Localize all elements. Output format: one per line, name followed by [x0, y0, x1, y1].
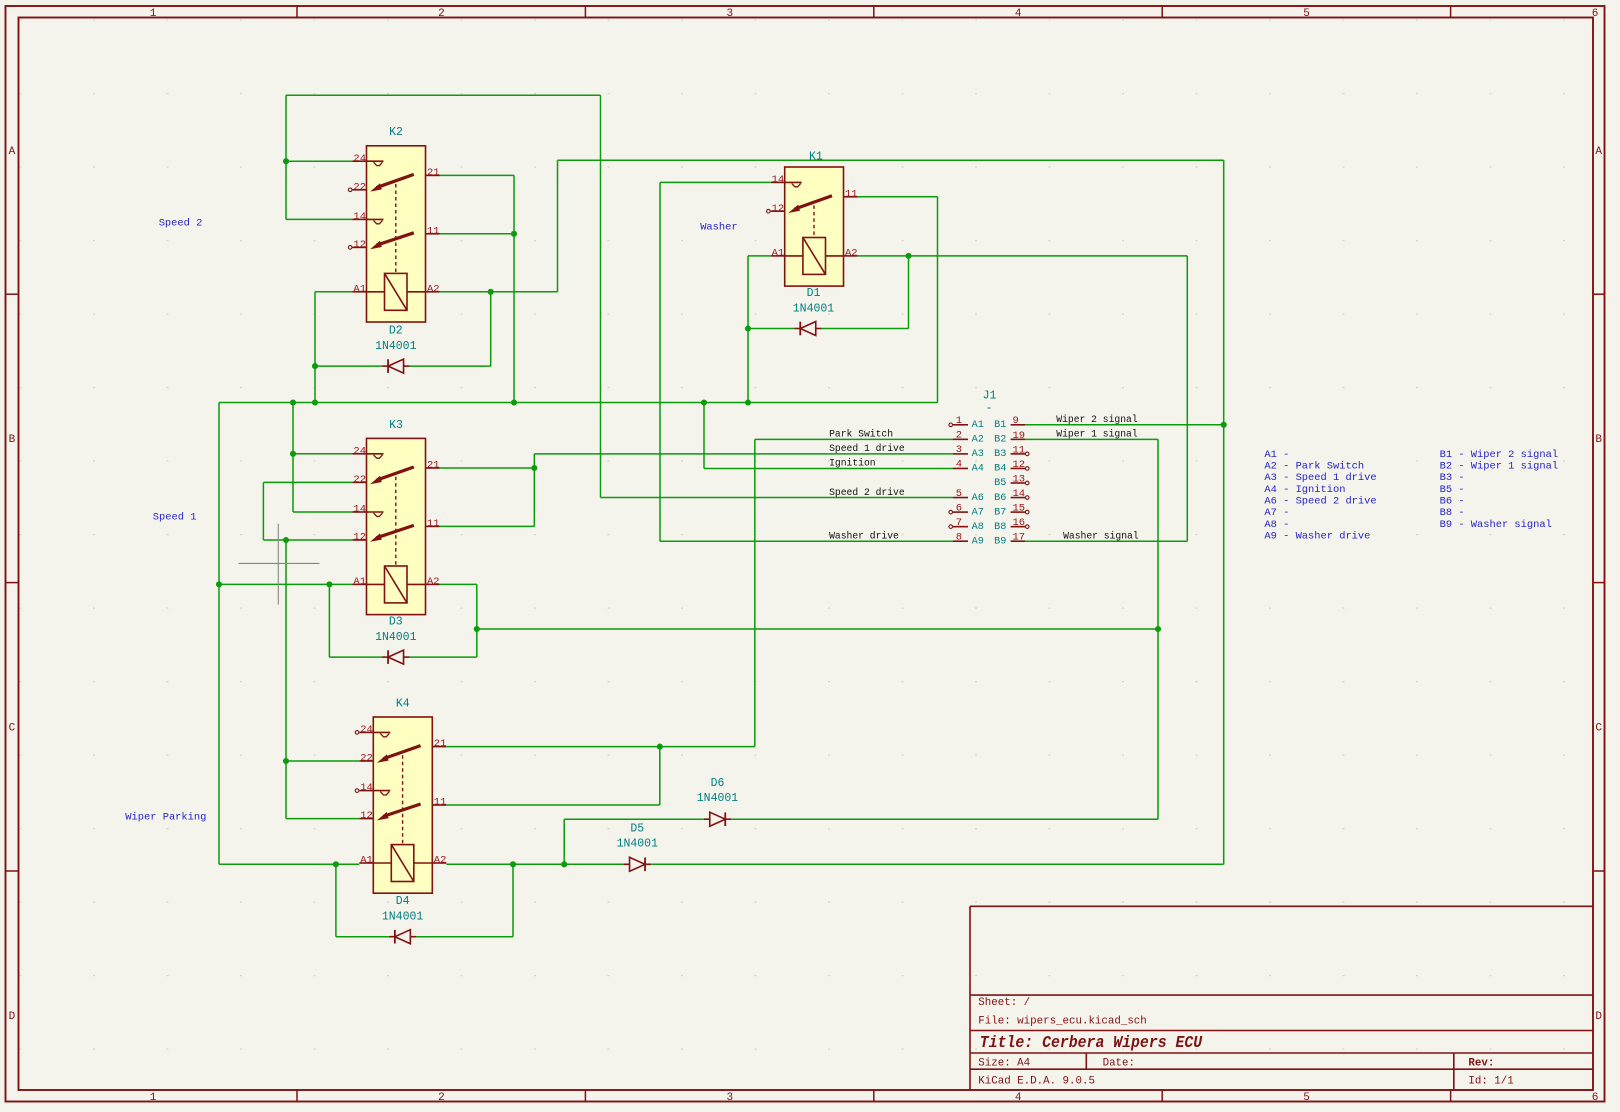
svg-text:5: 5 — [1303, 8, 1310, 20]
relay K3 coil A1-A2 — [353, 583, 367, 585]
junction Wiper 2 signal tee — [1221, 422, 1227, 428]
relay K2 unconnected pin 12 end — [348, 246, 352, 250]
svg-text:B: B — [9, 434, 16, 446]
svg-text:22: 22 — [360, 753, 373, 765]
connector J1 pin 5 (A6) — [953, 497, 968, 499]
svg-text:Size: A4: Size: A4 — [978, 1057, 1030, 1069]
wire bus y=629 to Wiper 1 signal riser — [477, 628, 1158, 630]
wire to K4 pin 22 — [286, 760, 359, 762]
wire K2 A2 to right — [440, 291, 558, 293]
svg-text:1N4001: 1N4001 — [375, 340, 417, 353]
svg-text:A2: A2 — [427, 576, 440, 588]
wire D3 loop left riser — [328, 584, 330, 657]
svg-text:D1: D1 — [807, 287, 821, 300]
junction D1 loop on riser — [745, 325, 751, 331]
svg-text:Id: 1/1: Id: 1/1 — [1468, 1076, 1513, 1088]
editor cursor crosshair — [239, 562, 320, 564]
wire vertical K3 pins 21/11 — [533, 454, 535, 527]
connector J1 unconnected pin 1 end — [949, 423, 953, 427]
junction A-bus x=293 — [290, 399, 296, 405]
wire K1 A1 stub wire — [748, 255, 771, 257]
svg-text:21: 21 — [427, 167, 440, 179]
svg-text:A2: A2 — [845, 248, 858, 260]
svg-text:Speed 1 drive: Speed 1 drive — [829, 443, 905, 454]
svg-text:Title: Cerbera Wipers ECU: Title: Cerbera Wipers ECU — [980, 1034, 1203, 1053]
junction D2 loop left / bus riser — [312, 363, 318, 369]
connector J1 unconnected pin 16 end — [1025, 525, 1029, 529]
wire A-bus left riser down to coil bus — [218, 403, 220, 865]
wire J1 pin 9 Wiper 2 signal — [1025, 424, 1224, 426]
relay K3 moving contact arm pin 12 / pin 11 — [353, 539, 367, 541]
relay K4 unconnected pin 14 end — [355, 789, 359, 793]
svg-text:4: 4 — [1015, 8, 1022, 20]
relay K4 moving contact arm pin 12 / pin 11 — [359, 818, 373, 820]
wire D4 loop right segment — [416, 936, 513, 938]
svg-text:A9 - Washer drive: A9 - Washer drive — [1264, 530, 1370, 542]
svg-text:B3: B3 — [994, 449, 1006, 460]
svg-text:B2: B2 — [994, 435, 1006, 446]
wire D2 loop to A-bus — [314, 366, 316, 402]
svg-text:K2: K2 — [389, 126, 403, 139]
wire D4 loop left segment — [336, 936, 389, 938]
svg-text:Washer signal: Washer signal — [1063, 530, 1139, 541]
wire coil bottom bus from K4 A2 to D5 — [446, 863, 623, 865]
connector J1 pin 11 (B3) — [1011, 453, 1025, 455]
wire J1 pin 19 Wiper 1 signal — [1025, 438, 1158, 440]
wire D4 loop left riser — [335, 864, 337, 936]
svg-text:A9: A9 — [972, 536, 984, 547]
wire Wiper 1 signal riser down to D6 — [1157, 439, 1159, 819]
svg-text:1: 1 — [150, 8, 157, 20]
wire D1 loop left segment — [748, 328, 794, 330]
junction K4 pin 22 tee — [283, 758, 289, 764]
svg-text:B1 - Wiper 2 signal: B1 - Wiper 2 signal — [1440, 449, 1558, 461]
relay K4 unconnected pin 24 end — [355, 731, 359, 735]
svg-text:11: 11 — [845, 188, 858, 200]
relay K1 body — [785, 167, 844, 286]
junction A-bus x=748 — [745, 399, 751, 405]
wire K2 A2 net across top to right side — [558, 159, 1224, 161]
wire K3 pin 11 to vertical — [440, 525, 535, 527]
wire K3 A2 right — [440, 583, 477, 585]
wire D6 input from coil bus branch — [564, 818, 704, 820]
wire right-side vertical x=1223.7 down to coil bus — [1223, 160, 1225, 864]
svg-text:B8: B8 — [994, 522, 1006, 533]
svg-text:6: 6 — [1592, 8, 1599, 20]
wire Park Switch vertical down to K4 pin 21 row — [754, 439, 756, 746]
svg-text:A4 - Ignition: A4 - Ignition — [1264, 484, 1345, 496]
svg-text:1: 1 — [956, 415, 962, 427]
relay K3 fixed contact pin 24 — [353, 453, 367, 455]
connector J1 pin 8 (A9) — [953, 540, 968, 542]
wire coil bottom bus right segment after D5 — [651, 863, 1224, 865]
svg-text:A6 - Speed 2 drive: A6 - Speed 2 drive — [1264, 495, 1376, 507]
wire D6 output to riser — [731, 818, 1158, 820]
diode D5 1N4001 (cathode right) — [624, 863, 630, 865]
svg-text:B1: B1 — [994, 420, 1006, 431]
svg-text:Speed 1: Speed 1 — [153, 512, 197, 524]
relay K4 fixed contact pin 14 — [359, 790, 373, 792]
connector J1 pin 7 (A8) — [953, 526, 968, 528]
svg-text:14: 14 — [353, 211, 366, 223]
wire K2 A1 left — [315, 291, 353, 293]
connector J1 pin 17 (B9) — [1011, 540, 1025, 542]
wire K2 A1 down to D2 loop — [314, 292, 316, 366]
svg-text:Wiper Parking: Wiper Parking — [125, 812, 206, 824]
relay K4 mechanical linkage (dashed) — [402, 755, 404, 844]
svg-text:D2: D2 — [389, 325, 403, 338]
svg-text:-: - — [986, 402, 993, 415]
wire vertical K2 pins 21/11 down to A-bus — [513, 175, 515, 402]
svg-text:2: 2 — [438, 1092, 445, 1104]
svg-text:Ignition: Ignition — [829, 458, 876, 469]
svg-text:Wiper 1 signal: Wiper 1 signal — [1056, 429, 1138, 440]
junction K3 A2 / D3 / bus y=629 — [474, 626, 480, 632]
wire D2 loop right riser — [490, 292, 492, 366]
svg-text:K4: K4 — [396, 697, 410, 710]
relay K2 mechanical linkage (dashed) — [395, 184, 397, 273]
svg-text:1N4001: 1N4001 — [793, 302, 835, 315]
diode D4 1N4001 (cathode left) — [389, 936, 395, 938]
wire D6 branch riser — [563, 819, 565, 864]
svg-text:B2 - Wiper 1 signal: B2 - Wiper 1 signal — [1440, 460, 1558, 472]
svg-text:A2: A2 — [427, 283, 440, 295]
connector J1 unconnected pin 7 end — [949, 525, 953, 529]
svg-text:24: 24 — [353, 445, 366, 457]
wire riser to K4 pin 11 — [659, 747, 661, 805]
svg-text:B5: B5 — [994, 478, 1006, 489]
junction D1 loop on K1 A2 wire — [905, 253, 911, 259]
svg-text:16: 16 — [1013, 517, 1026, 529]
svg-text:21: 21 — [427, 460, 440, 472]
junction D6 branch on coil bus — [561, 861, 567, 867]
junction D3 loop on K3 A1 wire — [326, 581, 332, 587]
relay K1 moving contact arm pin 12 / pin 11 — [771, 210, 785, 212]
svg-text:A3 - Speed 1 drive: A3 - Speed 1 drive — [1264, 472, 1376, 484]
relay K3 body — [367, 438, 426, 614]
wire K3 pin 21 to vertical — [440, 467, 535, 469]
svg-text:B9 - Washer signal: B9 - Washer signal — [1440, 519, 1552, 531]
wire to K3 pin 24 — [293, 453, 353, 455]
connector J1 pin 13 (B5) — [1011, 482, 1025, 484]
svg-text:A1: A1 — [772, 248, 785, 260]
svg-text:12: 12 — [353, 532, 366, 544]
relay K2 fixed contact pin 24 — [353, 160, 367, 162]
junction K3 pin 12 net to K4 — [283, 537, 289, 543]
svg-text:6: 6 — [956, 502, 962, 514]
svg-text:4: 4 — [1015, 1092, 1022, 1104]
svg-text:5: 5 — [1303, 1092, 1310, 1104]
wire vertical K2 A2 up — [557, 160, 559, 292]
wire K1 A2 down to Washer signal — [1186, 256, 1188, 541]
svg-text:1N4001: 1N4001 — [697, 792, 739, 805]
relay K3 moving contact arm pin 22 / pin 21 — [353, 481, 367, 483]
svg-text:A7 -: A7 - — [1264, 507, 1289, 519]
junction D4 loop right on coil bus — [510, 861, 516, 867]
junction bus y=629 right end — [1155, 626, 1161, 632]
svg-text:1N4001: 1N4001 — [375, 631, 417, 644]
wire coil bottom bus left segment to K4 A1 — [219, 863, 359, 865]
svg-text:12: 12 — [1013, 459, 1026, 471]
svg-text:6: 6 — [1592, 1092, 1599, 1104]
svg-text:A8: A8 — [972, 522, 984, 533]
svg-text:A: A — [9, 146, 16, 158]
diode D3 1N4001 (cathode left) — [382, 656, 388, 658]
svg-text:17: 17 — [1013, 532, 1026, 544]
svg-text:11: 11 — [1013, 444, 1026, 456]
wire D3 loop right riser — [476, 629, 478, 657]
svg-text:3: 3 — [726, 8, 733, 20]
svg-text:D5: D5 — [630, 822, 644, 835]
svg-text:3: 3 — [956, 444, 962, 456]
wire top bus K2 pins 24/14 to speed-2-drive vertical — [286, 94, 601, 96]
svg-text:3: 3 — [726, 1092, 733, 1104]
svg-text:B: B — [1595, 434, 1602, 446]
wire K3 pin 22 down to pin 12 row — [262, 482, 264, 540]
svg-text:1N4001: 1N4001 — [382, 911, 424, 924]
svg-text:J1: J1 — [983, 390, 997, 403]
junction K3 pin 24 tee — [290, 451, 296, 457]
wire K4 pin 11 row — [446, 804, 660, 806]
wire to K4 pin 12 — [286, 818, 359, 820]
svg-text:12: 12 — [360, 810, 373, 822]
connector J1 pin 14 (B6) — [1011, 497, 1025, 499]
junction K3 pin 21 tee — [531, 465, 537, 471]
svg-text:B6 -: B6 - — [1440, 495, 1465, 507]
wire K2 pin 11 to vertical — [440, 233, 515, 235]
wire into K2 pin 14 — [286, 218, 353, 220]
wire K4 pin 21 row — [446, 746, 755, 748]
wire horizontal A-bus y=402.5 — [219, 402, 938, 404]
connector J1 unconnected pin 12 end — [1025, 467, 1029, 471]
connector J1 pin 15 (B7) — [1011, 511, 1025, 513]
connector J1 unconnected pin 11 end — [1025, 452, 1029, 456]
junction K2 pin 11 tee — [511, 231, 517, 237]
svg-text:C: C — [1595, 723, 1602, 735]
relay K2 unconnected pin 22 end — [348, 188, 352, 192]
title block frame — [970, 905, 1593, 907]
svg-text:11: 11 — [427, 518, 440, 530]
wire D4 loop right riser — [512, 864, 514, 936]
wire K3 A2 down to park-return bus — [476, 584, 478, 629]
svg-text:Washer: Washer — [700, 221, 737, 233]
junction K3 A1 tee — [216, 581, 222, 587]
svg-text:1N4001: 1N4001 — [617, 837, 659, 850]
junction at K2 pin 24 branch — [283, 158, 289, 164]
svg-text:19: 19 — [1013, 430, 1026, 442]
svg-text:11: 11 — [427, 225, 440, 237]
wire K1 A1 riser from A-bus — [747, 256, 749, 403]
svg-text:B4: B4 — [994, 464, 1006, 475]
svg-text:8: 8 — [956, 531, 962, 543]
svg-text:24: 24 — [360, 724, 373, 736]
wire D1 loop right riser — [908, 256, 910, 329]
wire D2 loop left segment — [315, 365, 382, 367]
svg-text:4: 4 — [956, 459, 962, 471]
relay K4 body — [373, 717, 432, 893]
svg-text:B9: B9 — [994, 536, 1006, 547]
wire K2 pin 21 to vertical — [440, 174, 515, 176]
svg-text:12: 12 — [772, 203, 785, 215]
connector J1 pin 1 (A1) — [953, 424, 968, 426]
svg-text:Speed 2: Speed 2 — [159, 218, 203, 230]
connector J1 unconnected pin 13 end — [1025, 481, 1029, 485]
relay K2 body — [367, 146, 426, 322]
svg-text:A: A — [1595, 146, 1602, 158]
relay K3 mechanical linkage (dashed) — [395, 477, 397, 566]
svg-text:C: C — [9, 723, 16, 735]
connector J1 pin 16 (B8) — [1011, 526, 1025, 528]
wire D3 loop left segment — [329, 656, 382, 658]
relay K4 coil A1-A2 — [359, 862, 373, 864]
svg-text:Speed 2 drive: Speed 2 drive — [829, 487, 905, 498]
svg-text:A1 -: A1 - — [1264, 449, 1289, 461]
wire speed-2-drive vertical x=600.5 — [600, 95, 602, 497]
svg-text:A2 - Park Switch: A2 - Park Switch — [1264, 460, 1364, 472]
svg-text:9: 9 — [1013, 415, 1019, 427]
svg-text:Date:: Date: — [1103, 1057, 1135, 1069]
svg-text:D6: D6 — [711, 777, 725, 790]
svg-text:A1: A1 — [353, 283, 366, 295]
svg-text:A2: A2 — [434, 855, 447, 867]
connector J1 unconnected pin 15 end — [1025, 510, 1029, 514]
svg-text:Washer drive: Washer drive — [829, 530, 899, 541]
svg-text:A3: A3 — [972, 449, 984, 460]
svg-text:14: 14 — [1013, 488, 1026, 500]
wire J1 pin 2 Park Switch — [755, 438, 953, 440]
svg-text:7: 7 — [956, 517, 962, 529]
relay K2 coil A1-A2 — [353, 291, 367, 293]
svg-text:22: 22 — [353, 181, 366, 193]
svg-text:21: 21 — [434, 738, 447, 750]
wire to K3 pin 14 — [293, 511, 353, 513]
svg-text:B7: B7 — [994, 507, 1006, 518]
relay K2 moving contact arm pin 12 / pin 11 — [353, 246, 367, 248]
svg-text:11: 11 — [434, 797, 447, 809]
relay K3 fixed contact pin 14 — [353, 511, 367, 513]
svg-text:A1: A1 — [360, 855, 373, 867]
connector J1 pin 12 (B4) — [1011, 467, 1025, 469]
svg-text:A7: A7 — [972, 507, 984, 518]
wire Ignition to J1 pin 4 — [704, 467, 953, 469]
wire Speed 1 drive to J1 pin 3 — [534, 453, 953, 455]
wire K1 pin 11 right — [858, 196, 938, 198]
connector J1 pin 6 (A7) — [953, 511, 968, 513]
relay K2 moving contact arm pin 22 / pin 21 — [353, 189, 367, 191]
svg-text:15: 15 — [1013, 503, 1026, 515]
relay K2 fixed contact pin 14 — [353, 218, 367, 220]
svg-text:2: 2 — [438, 8, 445, 20]
wire K1 pin 11 down to A-bus — [937, 197, 939, 403]
connector J1 unconnected pin 6 end — [949, 510, 953, 514]
diode D6 1N4001 (cathode right) — [704, 818, 710, 820]
wire J1 pin 17 Washer signal — [1025, 540, 1187, 542]
connector J1 unconnected pin 14 end — [1025, 496, 1029, 500]
diode D1 1N4001 (cathode left) — [794, 328, 800, 330]
svg-text:B3 -: B3 - — [1440, 472, 1465, 484]
svg-text:A8 -: A8 - — [1264, 519, 1289, 531]
svg-text:K1: K1 — [809, 151, 823, 164]
svg-text:A6: A6 — [972, 493, 984, 504]
connector J1 pin 3 (A3) — [953, 453, 968, 455]
svg-text:K3: K3 — [389, 419, 403, 432]
wire Ignition riser from A-bus — [703, 403, 705, 469]
svg-text:22: 22 — [353, 474, 366, 486]
junction K4 pin 21 / pin 11 riser — [657, 744, 663, 750]
svg-text:Sheet: /: Sheet: / — [978, 997, 1030, 1009]
svg-text:D3: D3 — [389, 616, 403, 629]
relay K1 fixed contact pin 14 — [771, 181, 785, 183]
wire vertical at x=286 to K2 pin 14 — [285, 95, 287, 219]
junction A-bus x=704 — [701, 399, 707, 405]
junction D2 loop on K2 A2 wire — [488, 289, 494, 295]
relay K4 fixed contact pin 24 — [359, 731, 373, 733]
connector J1 pin 4 (A4) — [953, 467, 968, 469]
junction D4 loop left on coil bus — [333, 861, 339, 867]
svg-text:D4: D4 — [396, 895, 410, 908]
wire vertical x=293 to K3 pins 24/14 — [292, 403, 294, 513]
svg-text:14: 14 — [353, 504, 366, 516]
svg-text:2: 2 — [956, 430, 962, 442]
wire D1 loop right segment — [822, 328, 909, 330]
svg-text:14: 14 — [360, 782, 373, 794]
junction A-bus x=315 — [312, 399, 318, 405]
svg-text:B8 -: B8 - — [1440, 507, 1465, 519]
svg-text:13: 13 — [1013, 473, 1026, 485]
wire vertical x=286 down to K4 pin 12 — [285, 540, 287, 819]
connector J1 pin 19 (B2) — [1011, 438, 1025, 440]
svg-text:D: D — [9, 1011, 16, 1023]
svg-text:A1: A1 — [972, 420, 984, 431]
relay K4 moving contact arm pin 22 / pin 21 — [359, 760, 373, 762]
wire branch to K2 pin 24 — [286, 160, 353, 162]
svg-text:14: 14 — [772, 174, 785, 186]
svg-text:File: wipers_ecu.kicad_sch: File: wipers_ecu.kicad_sch — [978, 1016, 1146, 1028]
wire washer drive vertical x=660 — [659, 182, 661, 541]
relay K1 coil A1-A2 — [771, 255, 785, 257]
wire D2 loop right segment — [410, 365, 491, 367]
connector J1 pin 2 (A2) — [953, 438, 968, 440]
svg-text:12: 12 — [353, 239, 366, 251]
svg-text:1: 1 — [150, 1092, 157, 1104]
relay K1 unconnected pin 12 end — [767, 209, 771, 213]
wire K3 pin 12 row — [263, 539, 352, 541]
wire K3 pin 22 left — [263, 481, 352, 483]
relay K1 mechanical linkage (dashed) — [813, 205, 815, 237]
svg-text:A1: A1 — [353, 576, 366, 588]
svg-text:Park Switch: Park Switch — [829, 429, 893, 440]
wire K1 A2 right — [858, 255, 1188, 257]
svg-text:5: 5 — [956, 488, 962, 500]
svg-text:Wiper 2 signal: Wiper 2 signal — [1056, 414, 1138, 425]
svg-text:Rev:: Rev: — [1468, 1057, 1494, 1069]
svg-text:B6: B6 — [994, 493, 1006, 504]
wire Washer drive to J1 pin 8 — [660, 540, 953, 542]
wire K3 A1 left to riser — [219, 583, 353, 585]
connector J1 pin 9 (B1) — [1011, 424, 1025, 426]
svg-text:A2: A2 — [972, 435, 984, 446]
diode D2 1N4001 (cathode left) — [382, 365, 388, 367]
junction A-bus x=514 — [511, 399, 517, 405]
wire K1 pin 14 left — [660, 181, 771, 183]
svg-text:A4: A4 — [972, 464, 984, 475]
svg-text:KiCad E.D.A. 9.0.5: KiCad E.D.A. 9.0.5 — [978, 1076, 1095, 1088]
svg-text:24: 24 — [353, 153, 366, 165]
svg-text:B5 -: B5 - — [1440, 484, 1465, 496]
wire D3 loop right segment — [410, 656, 477, 658]
wire Speed 2 drive to J1 pin 5 — [601, 497, 954, 499]
svg-text:D: D — [1595, 1011, 1602, 1023]
